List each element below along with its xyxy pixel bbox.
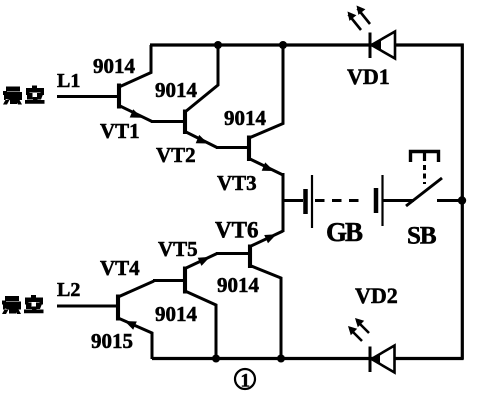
svg-text:VD1: VD1 [347,64,390,89]
switch SB [406,152,442,207]
svg-text:9014: 9014 [155,302,198,326]
node top rail VT2 collector [214,41,222,49]
svg-text:L2: L2 [57,279,80,301]
label 9014 VT1 [93,54,136,78]
svg-text:SB: SB [407,223,436,250]
label VT4 [100,256,140,280]
node bottom rail VT5 collector [212,355,220,363]
wire bottom rail [152,357,464,360]
label VT6 [215,218,258,243]
label L1 [57,70,80,92]
svg-text:9014: 9014 [93,54,136,78]
label VT5 [158,237,198,261]
svg-text:9014: 9014 [224,106,267,130]
wire node to battery [283,199,303,202]
svg-text:VT5: VT5 [158,237,198,261]
transistor VT6 [250,234,281,359]
wire VT5 emitter to VT6 base [216,252,250,255]
label 悬空 upper [3,86,45,105]
node top rail VT3 collector [279,41,287,49]
wire VT6 emitter link [250,231,283,247]
transistor VT4 [118,281,154,359]
transistor VT5 [185,254,217,360]
wire emitter common vertical VT3/VT6 [282,173,285,232]
label 9014 VT3 [224,106,267,130]
svg-text:9015: 9015 [91,329,133,353]
svg-text:VT2: VT2 [156,143,196,167]
svg-text:VD2: VD2 [355,283,398,308]
node bottom rail VT6 collector [277,355,285,363]
transistor VT1 [119,45,152,122]
svg-text:9014: 9014 [217,273,260,297]
label VT1 [100,119,140,143]
label 9014 VT5 [155,302,198,326]
label L2 [57,279,80,301]
svg-text:VT3: VT3 [217,171,257,195]
LED VD1 [348,6,396,59]
wire VT1 emitter to VT2 base [151,120,185,123]
svg-text:GB: GB [326,217,363,247]
label VT3 [217,171,257,195]
wire VT4 collector to VT5 base [153,279,185,282]
label 9014 VT6 [217,273,260,297]
wire VT2 emitter to VT3 base [216,146,249,149]
svg-text:L1: L1 [57,70,80,92]
label SB [407,223,436,250]
svg-text:VT4: VT4 [100,256,140,280]
label VT2 [156,143,196,167]
battery GB cell 2 [376,175,383,226]
svg-text:1: 1 [241,371,251,392]
label 9015 VT4 [91,329,133,353]
svg-text:9014: 9014 [155,78,198,102]
svg-text:VT6: VT6 [215,218,258,243]
label VD2 [355,283,398,308]
wire right rail [461,44,464,360]
label GB [326,217,363,247]
svg-text:VT1: VT1 [100,119,140,143]
figure number 1 [235,369,255,392]
wire dashed battery link [315,199,363,202]
wire L2 lead [57,305,118,308]
wire battery to switch [383,199,414,202]
label 9014 VT2 [155,78,198,102]
label 悬空 lower [2,295,44,314]
node switch right rail [458,196,466,204]
wire L1 lead [57,95,119,98]
wire switch to right rail [437,199,463,202]
LED VD2 [348,318,395,373]
battery GB cell 1 [306,175,313,228]
label VD1 [347,64,390,89]
transistor VT3 [249,45,283,175]
transistor VT2 [185,45,218,148]
wire top rail [150,43,464,46]
